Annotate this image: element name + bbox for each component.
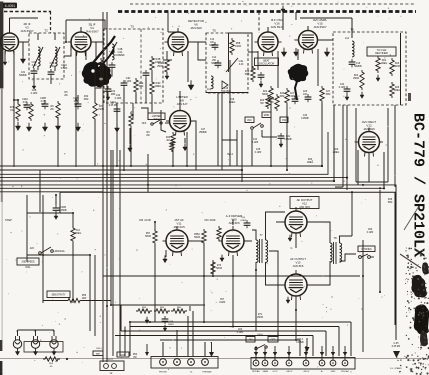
wire bus line 1: [0, 103, 322, 166]
boxed label ON: [246, 337, 255, 343]
speckle field right margin: [397, 247, 429, 375]
wire V8 plate to T7: [244, 240, 252, 242]
resistor R75 500M: [217, 226, 221, 241]
wire T6 down left2: [346, 105, 348, 190]
wire right column a: [379, 190, 381, 292]
resistor R58A: [202, 229, 206, 245]
svg-text:T2: T2: [44, 29, 48, 33]
svg-text:GND: GND: [331, 371, 336, 373]
capacitor C3B in T2: [48, 69, 55, 77]
dial lamp box PILOT: [100, 361, 124, 371]
boxed label AVC: [245, 117, 254, 123]
arrow ground right column: [393, 351, 400, 358]
resistor R20 5W: [266, 95, 270, 109]
coil T7 secondary: [266, 240, 268, 262]
wire bottom bus drop 4: [312, 336, 314, 357]
wire terminal feed 5: [305, 346, 307, 360]
wire column i: [13, 100, 15, 167]
resistor R22 500M: [269, 86, 273, 103]
capacitor C42A: [114, 106, 121, 114]
wire V3 grid top: [168, 31, 178, 33]
wire top run to T6: [300, 17, 352, 19]
capacitor C41 0.05MF: [278, 133, 285, 141]
capacitor C4D: [121, 80, 128, 88]
wire V6 left pin: [161, 110, 166, 132]
wire R57 top: [154, 222, 156, 231]
wire bottom bus drop 5: [299, 340, 301, 356]
wire dial box right: [42, 195, 44, 303]
wire to ground a: [129, 128, 131, 144]
heavy wire streak 2: [99, 50, 114, 68]
wire down into T6: [351, 18, 353, 38]
boxed label MOD: [262, 112, 271, 118]
wire T6 down left: [342, 105, 344, 187]
ink blob AVC area: [288, 64, 309, 83]
resistor R4E: [134, 78, 138, 94]
wire T8 top to audio box: [351, 192, 353, 236]
wire bottom bus 2: [130, 326, 339, 328]
svg-text:R3050M: R3050M: [280, 93, 285, 98]
wire R4D down: [151, 96, 153, 112]
svg-text:AVC: AVC: [30, 247, 35, 250]
svg-text:R73500M: R73500M: [216, 265, 222, 270]
wire bottom bus 3: [121, 330, 326, 332]
resistor R25: [275, 94, 279, 111]
ground V9 cathode: [288, 235, 292, 242]
ground pilot lamp: [52, 348, 56, 355]
wire bus line 4: [0, 177, 347, 179]
wire V9 cathode down: [295, 233, 297, 248]
down arrow into C64 node: [305, 338, 310, 352]
wire audio drop d: [277, 262, 279, 336]
ground below C58: [163, 325, 167, 331]
capacitor C29C: [75, 101, 82, 109]
wire T6 right down: [394, 105, 396, 187]
wire top rail drop a: [9, 18, 11, 33]
svg-text:R71250M: R71250M: [257, 314, 263, 319]
svg-text:OFF: OFF: [271, 339, 276, 342]
wire heavy shield bus: [118, 10, 416, 13]
wire V8 cathode down: [232, 255, 234, 276]
wire V10 cathode down: [295, 296, 297, 310]
tube V5 AVC amplifier JAN-6SK7: [295, 27, 321, 54]
wire T3 divider: [140, 29, 142, 103]
wire pot arrow: [226, 58, 238, 72]
wire terminal feed 6: [321, 346, 323, 360]
wire R4A down: [95, 74, 101, 88]
svg-text:R5B100M: R5B100M: [235, 43, 241, 48]
ground below C34: [345, 94, 349, 101]
pilot lamp enclosure box: [24, 342, 63, 353]
capacitor C30B: [53, 205, 60, 213]
wire right audio column to terminal: [362, 240, 364, 352]
terminal TS3-2: [262, 360, 268, 366]
resistor R4A 100M: [99, 58, 103, 74]
wire L3A bottom: [37, 66, 39, 70]
wire V1 grid top: [9, 28, 11, 33]
label box tube V9: [290, 197, 319, 209]
switch SW-3 toggle: [251, 123, 264, 129]
svg-text:- BIAS: - BIAS: [262, 370, 269, 373]
svg-text:PILOT: PILOT: [107, 359, 114, 361]
resistor R26 500M: [390, 58, 394, 76]
down arrow mid: [209, 342, 214, 357]
wire terminal feed 2: [264, 346, 266, 360]
resistor R60 5M: [171, 309, 187, 313]
wire V5 pin down: [317, 49, 319, 86]
resistor R30 50M: [285, 88, 289, 105]
wire R6 top: [72, 213, 74, 228]
wire terminal feed 7: [332, 346, 334, 360]
pilot lamp I-1: [13, 336, 21, 348]
wire C3A down: [33, 76, 35, 84]
wire drop to TS2 e: [176, 330, 178, 356]
pen scratch diagonal: [404, 206, 419, 230]
wire V4 grid top: [267, 27, 269, 32]
terminal TS2-2: [174, 359, 181, 366]
wire T7 sec to V9: [266, 212, 286, 240]
wire terminal feed 1: [255, 346, 257, 360]
coil T8 primary: [330, 243, 332, 262]
wire bottom bus drop 3: [325, 331, 327, 356]
resistor R28 2MEG: [390, 82, 394, 98]
wire R30 to bus: [286, 105, 288, 170]
wire bus line 7: [0, 187, 384, 189]
ink smudge right edge 1: [422, 262, 429, 274]
wire AVC rect left: [355, 108, 357, 182]
ink blob heavy coil T4 area: [82, 62, 112, 88]
terminal strip TS3: [251, 358, 355, 370]
ground below C41: [279, 141, 283, 148]
ground below C23: [259, 81, 263, 88]
wire row link: [14, 99, 18, 101]
svg-text:MOD: MOD: [264, 114, 270, 117]
wire V2 left drop: [65, 20, 67, 42]
ground R58 row: [145, 317, 149, 324]
boxed label CW: [280, 117, 288, 123]
ground V1 plate side: [20, 55, 25, 64]
IF transformer T3 shield box: [104, 29, 163, 103]
terminal TS3-8: [342, 360, 348, 366]
wire corner into audio: [335, 186, 343, 188]
ground pilot lamp: [15, 348, 19, 355]
wire row link2: [17, 100, 19, 104]
wire T3 bottom to comp: [132, 103, 134, 118]
svg-text:R4E50M: R4E50M: [139, 83, 144, 88]
wire R4E down: [135, 94, 137, 103]
wire T7 primary bottom: [255, 262, 257, 270]
ground below V7: [163, 255, 167, 262]
wire T6 inner right: [400, 33, 402, 105]
svg-text:SENSITIVITY: SENSITIVITY: [51, 295, 66, 297]
wire L3B top: [54, 33, 56, 40]
wire V6 grid top: [179, 104, 181, 110]
capacitor C14: [215, 60, 222, 68]
wire dashed left shield: [4, 11, 51, 13]
svg-text:SW-6: SW-6: [257, 334, 263, 336]
resistor R16 250M: [165, 58, 169, 74]
wire column h: [39, 171, 41, 213]
tube V8 AF driver JAN-6F6: [219, 226, 248, 256]
wire bottom bus 5: [160, 339, 300, 341]
svg-text:+180 V: +180 V: [286, 371, 293, 373]
junction dots bus band: [241, 165, 385, 190]
wire R31 top: [94, 60, 96, 103]
ground below V4 area: [281, 48, 286, 57]
wire to limiter switch: [141, 108, 148, 120]
tube V6 limiter JAN-6J7: [166, 107, 194, 136]
junction dot x111: [110, 304, 112, 306]
ground C3A: [32, 83, 36, 89]
ground below R2B: [15, 122, 20, 131]
wire C4E down: [145, 78, 147, 103]
wire mid link det: [222, 139, 237, 141]
wire long column b2: [106, 12, 108, 362]
wire plate loop T5: [229, 33, 253, 72]
resistor R42 small: [170, 139, 174, 152]
wire R6 link: [45, 212, 73, 214]
capacitor C34: [344, 86, 351, 94]
svg-text:PHONES: PHONES: [202, 372, 212, 374]
wire pot to bus column: [82, 300, 111, 302]
wire R58A down: [203, 243, 205, 276]
resistor R19 50M: [251, 66, 255, 82]
svg-text:ON: ON: [249, 339, 253, 342]
wire T3 left entry: [95, 42, 97, 58]
wire C4A bottom: [104, 70, 112, 76]
wire C4D down: [123, 88, 125, 103]
svg-text:C52 .01 MF: C52 .01 MF: [139, 220, 152, 222]
ground top near V4: [281, 6, 285, 13]
terminal TS2-4: [202, 359, 209, 366]
ground below C29C: [75, 123, 80, 132]
wire SW-3 to bus: [251, 130, 253, 166]
junction node dots: [13, 41, 381, 341]
tube V11 AVC rectifier JAN-6H6: [355, 128, 383, 157]
wire R41 to bus: [130, 128, 132, 166]
resistor R8: [56, 101, 60, 120]
wire to C41: [262, 136, 277, 138]
ground near V8: [220, 255, 224, 262]
ground below R23: [360, 92, 364, 99]
wire T5 to BFO region: [248, 51, 258, 53]
svg-text:R16250M: R16250M: [157, 63, 163, 68]
wire V11 cathode down: [368, 153, 370, 182]
wire mid column: [236, 130, 238, 166]
wire T7 sec to V10: [266, 262, 286, 285]
svg-text:115V AC: 115V AC: [341, 370, 350, 373]
wire column g: [75, 100, 77, 167]
ground below C42B: [106, 94, 110, 100]
svg-text:C4G3-30: C4G3-30: [239, 61, 244, 66]
svg-text:R23250M: R23250M: [353, 75, 359, 80]
svg-text:R1950M: R1950M: [245, 71, 250, 76]
boxed label beat oscillator: [255, 58, 279, 66]
svg-text:MANUAL: MANUAL: [55, 250, 66, 253]
wire SW3 branch: [261, 130, 263, 137]
svg-text:SW-1: SW-1: [96, 348, 102, 350]
ground V1 cathode: [3, 59, 7, 65]
wire R22 to bus: [270, 103, 272, 166]
svg-text:L14: L14: [345, 37, 350, 40]
ground below R24: [376, 75, 380, 82]
wire AVC rect bottom: [356, 181, 388, 183]
tube V3 detector JAN-6H6: [165, 28, 192, 56]
resistor R53 ballast: [43, 357, 60, 361]
wire audio drop f: [154, 257, 156, 322]
small ink mark right upper: [408, 93, 411, 101]
wire long column c: [112, 150, 114, 356]
wire bus line 5: [0, 180, 334, 182]
wire right column b: [395, 187, 397, 340]
wire V5 cathode down: [297, 49, 299, 60]
svg-text:BC-779 / SP210LX: BC-779 / SP210LX: [410, 113, 427, 257]
wire long column c2: [110, 150, 112, 305]
terminal TS3-3: [272, 360, 278, 366]
detector transformer T5 shield box: [206, 33, 248, 93]
wire audio drop e: [295, 310, 297, 340]
svg-text:6-4051: 6-4051: [5, 4, 16, 8]
resistor R55 sensitivity pot: [66, 298, 82, 302]
wire T5 bottom rail: [206, 92, 248, 94]
coil L3B in T2: [55, 47, 57, 66]
pilot lamp I-2: [31, 336, 39, 348]
wire R73 to line: [212, 262, 214, 276]
wire top rail a: [10, 17, 39, 19]
wire trimmer arrow L3A: [33, 47, 43, 68]
ground below C42A: [115, 124, 120, 132]
terminal TS3-5: [303, 360, 309, 366]
switch manual/AVC toggle: [39, 247, 54, 254]
wire V4 plate down: [277, 51, 279, 88]
wire C29C stub: [77, 95, 79, 103]
wire lamp1 feed: [17, 330, 19, 336]
crystal diode arrow: [222, 81, 228, 89]
wire V1 plate to T2: [19, 41, 29, 43]
wire column f: [57, 117, 59, 167]
wire terminal feed 3: [274, 346, 276, 360]
wire L3A top: [37, 33, 39, 40]
capacitor C26: [305, 94, 312, 102]
ground below C30B: [54, 213, 58, 220]
boxed note to rectifier: [367, 47, 396, 56]
ground pilot lamp: [33, 348, 37, 355]
wire R27 to bus: [321, 103, 323, 120]
wire T2 to V2 grid: [64, 42, 71, 56]
capacitor C3A in T2: [31, 68, 38, 76]
svg-text:DIAL: DIAL: [25, 266, 31, 269]
wire column e: [147, 154, 149, 192]
tube V9 AF output JAN-6F6: [282, 207, 311, 237]
wire drop to TS2 c: [204, 342, 206, 356]
wire AVC drop x358: [357, 150, 359, 185]
phone jack symbol: [359, 254, 374, 258]
coil T8 secondary: [340, 243, 342, 262]
terminal TS2-3: [188, 359, 195, 366]
tube V10 AF output JAN-6F6: [282, 270, 311, 300]
svg-text:R3260M: R3260M: [84, 96, 89, 101]
wire V9 grid: [276, 221, 285, 223]
wire V9 plate to T8: [307, 222, 330, 243]
terminal TS3-4: [286, 360, 292, 366]
wire dashed drop 2: [258, 12, 260, 33]
wire top run to T3: [66, 20, 105, 29]
terminal strip TS2: [151, 357, 218, 369]
tube V2 3rd IF amplifier JAN-6SK7: [68, 28, 95, 56]
wire T3 to bus 2: [123, 103, 125, 170]
wire T8 to phones: [340, 254, 357, 261]
resistor R73 500M: [211, 260, 215, 276]
left page edge dark strip: [0, 2, 3, 89]
capacitor C56: [244, 220, 251, 228]
ground V10 cathode: [286, 297, 290, 304]
svg-text:F.L. STAND: F.L. STAND: [390, 367, 402, 370]
wire row end down: [189, 306, 191, 311]
wire lamp bus: [18, 329, 55, 331]
wire audio cross: [27, 254, 90, 256]
wire bottom left riser b: [124, 327, 126, 357]
wire V1 pin to resistor row: [13, 51, 15, 100]
wire bus line 6: [0, 185, 396, 340]
wire T7 primary top: [252, 230, 256, 240]
wire V7 cathode: [165, 250, 167, 257]
ink smudge right edge 4: [420, 331, 428, 346]
wire terminal feed 4: [288, 346, 290, 360]
boxed label GND: [117, 352, 129, 357]
capacitor C19 50MMF: [349, 59, 356, 67]
wire: [0, 51, 1, 53]
wire audio box left: [27, 192, 60, 213]
svg-text:OFF: OFF: [142, 123, 147, 125]
terminal TS2-1: [160, 359, 167, 366]
capacitor C27B: [292, 96, 299, 104]
ink smudge right edge 3: [414, 304, 429, 334]
wire dial box left: [26, 195, 28, 262]
tube V4 beat frequency oscillator JAN-6SJ7: [255, 28, 282, 56]
terminal TS3-1: [253, 360, 259, 366]
svg-text:SW-4: SW-4: [227, 154, 233, 156]
wire C30B stem: [55, 195, 57, 205]
wire long column b: [106, 12, 108, 362]
horizontal page crease line: [0, 357, 429, 360]
svg-text:C53 .01MF: C53 .01MF: [204, 220, 216, 222]
wire V2 pin down: [85, 51, 87, 60]
wire R31 to bus: [94, 119, 96, 166]
resistor R58 300M: [136, 309, 152, 313]
heavy wire streak from blob: [92, 36, 115, 64]
wire AVC rect right: [387, 108, 389, 182]
wire V6 pin to bus: [186, 132, 188, 166]
wire shield dashed top: [130, 3, 414, 5]
transformer T7 interstage: [260, 239, 263, 263]
switch SW-6 toggle: [255, 345, 267, 350]
pilot lamp I-3: [50, 336, 58, 348]
svg-text:SPR AD: SPR AD: [252, 370, 260, 373]
IF transformer T2 shield box: [29, 33, 64, 79]
coil L14: [352, 41, 354, 57]
resistor R-6 PREG: [71, 226, 75, 243]
svg-text:BAT: BAT: [96, 353, 101, 356]
wire bus line 2: [0, 169, 242, 171]
label plate 6-4051: [3, 3, 17, 9]
svg-text:R4A100M: R4A100M: [93, 64, 99, 70]
ground below R8: [55, 122, 60, 131]
wire V10 plate to T8: [307, 261, 330, 285]
capacitor C29A: [24, 102, 31, 110]
svg-text:6.3 V: 6.3 V: [273, 371, 278, 373]
wire T5 second entry: [198, 42, 206, 60]
wire bus line 3: [0, 132, 328, 174]
